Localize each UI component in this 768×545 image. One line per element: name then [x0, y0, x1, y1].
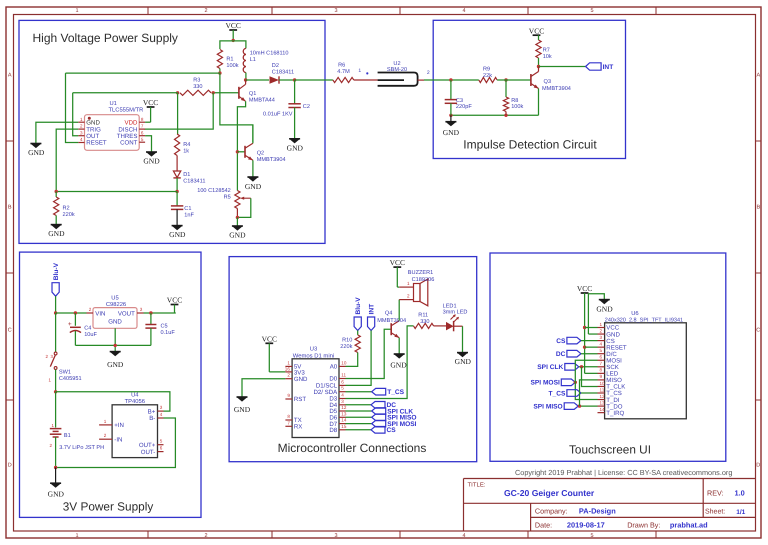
svg-text:100k: 100k	[511, 103, 523, 110]
wire R1 bottom lead	[219, 69, 221, 74]
svg-text:3: 3	[334, 533, 337, 539]
node C1 rail left	[55, 190, 58, 193]
svg-text:D: D	[756, 463, 760, 469]
resistor R1 body	[217, 50, 222, 69]
U1 pin 1 GND	[78, 121, 84, 123]
svg-text:R3: R3	[193, 77, 200, 83]
svg-text:GND: GND	[48, 229, 65, 238]
svg-text:RST: RST	[294, 396, 306, 403]
svg-text:3: 3	[160, 405, 163, 410]
U3 pin 11 D0	[339, 378, 346, 380]
U3 pin 14 D7	[339, 423, 346, 425]
wire Q1 base from R3	[213, 92, 239, 94]
U6 pin 8 LED	[598, 372, 605, 374]
battery B1 plates	[50, 428, 62, 430]
U1 pin 7 DISCH	[139, 128, 145, 130]
U6 pin 10 T_CLK	[598, 385, 605, 387]
net flag CS (MCU)	[346, 429, 372, 431]
svg-text:B: B	[756, 205, 760, 211]
switch SW1 C405951	[54, 352, 57, 355]
svg-text:TITLE:: TITLE:	[468, 482, 486, 489]
svg-text:B: B	[8, 205, 12, 211]
U6 pin 2 GND	[598, 333, 605, 335]
svg-text:R7: R7	[543, 47, 550, 53]
svg-text:GND: GND	[287, 144, 304, 153]
svg-text:330: 330	[193, 84, 202, 90]
resistor R8 body	[503, 97, 508, 112]
svg-text:TP4056: TP4056	[125, 398, 145, 405]
wire VCC to buzzer pin1	[397, 286, 399, 288]
node C3 bottom	[449, 114, 452, 117]
svg-text:6: 6	[341, 379, 344, 384]
wire impulse input rail y80	[451, 79, 479, 81]
wire R6 to tube pin 1	[354, 79, 378, 81]
svg-text:GND: GND	[229, 231, 246, 240]
svg-text:4: 4	[80, 137, 83, 142]
IC U6 ILI9341 TFT body	[605, 323, 687, 419]
svg-text:Q4: Q4	[385, 311, 392, 317]
svg-text:R1: R1	[226, 57, 233, 63]
wire R4 to D1	[176, 156, 178, 171]
U3 pin 3 D4	[339, 404, 346, 406]
svg-text:1: 1	[75, 533, 78, 539]
svg-text:D8: D8	[329, 427, 337, 434]
svg-text:Copyright 2019 Prabhat | Lic: Copyright 2019 Prabhat | License: CC BY-…	[515, 468, 732, 477]
node VCC at pin4	[583, 345, 586, 348]
svg-text:C5: C5	[161, 324, 168, 330]
tube polarity mark	[366, 72, 368, 74]
svg-text:5: 5	[141, 137, 144, 142]
svg-text:GND: GND	[48, 490, 65, 499]
wire R8 top lead	[505, 80, 507, 97]
wire to INT flag	[539, 66, 586, 68]
node R1 bottom	[218, 71, 221, 74]
svg-text:U5: U5	[111, 296, 118, 302]
capacitor C1 body	[171, 205, 183, 207]
svg-text:4: 4	[341, 393, 344, 398]
svg-text:12: 12	[341, 405, 347, 410]
wire SW1 to battery rail	[55, 369, 57, 391]
svg-text:5: 5	[341, 386, 344, 391]
svg-text:A: A	[8, 73, 12, 79]
node C4 top	[74, 311, 77, 314]
ground at U3	[237, 397, 248, 402]
ground under C1	[172, 226, 183, 231]
wire R11 to LED	[434, 325, 446, 327]
U4 pin B-	[158, 417, 164, 419]
svg-text:SBM-20: SBM-20	[387, 67, 407, 73]
node battery rail left	[54, 311, 57, 314]
section box: Impulse Detection Circuit	[433, 20, 625, 158]
svg-text:16: 16	[285, 367, 291, 372]
wire gnd to pin2	[588, 333, 597, 335]
U6 pin 7 SCK	[598, 366, 605, 368]
svg-text:Touchscreen UI: Touchscreen UI	[569, 443, 651, 457]
svg-text:11: 11	[341, 373, 346, 378]
svg-text:GND: GND	[596, 305, 613, 314]
svg-text:1k: 1k	[183, 148, 189, 155]
ground under C2	[289, 139, 300, 144]
wire VCC split to R1 and L1 tops	[220, 41, 246, 49]
U4 pin OUT+	[158, 444, 164, 446]
svg-text:Q1: Q1	[249, 91, 256, 97]
wire battery rail to ground	[55, 468, 57, 484]
svg-text:1: 1	[75, 8, 78, 14]
net flag INT	[586, 63, 602, 70]
wire C3 bottom lead	[450, 103, 452, 115]
svg-text:4.7M: 4.7M	[337, 69, 350, 75]
svg-text:GND: GND	[107, 360, 124, 369]
U3 pin 1 5V	[285, 365, 292, 367]
svg-text:R8: R8	[511, 98, 518, 104]
capacitor C4 polarized	[74, 313, 76, 326]
svg-text:GND: GND	[234, 405, 251, 414]
svg-text:GND: GND	[169, 230, 186, 239]
svg-text:Microcontroller Connections: Microcontroller Connections	[278, 441, 427, 455]
diode D2 C183411	[246, 79, 269, 81]
wire Q4 emitter to ground	[398, 338, 400, 354]
svg-text:2: 2	[287, 373, 290, 378]
frame row ticks and letters	[6, 73, 761, 469]
resistor R3 body	[180, 90, 211, 95]
wire R5 bottom lead	[236, 209, 238, 218]
svg-text:Wemos D1 mini: Wemos D1 mini	[293, 352, 334, 359]
wire C1 top lead	[176, 192, 178, 206]
wire impulse bottom rail	[451, 114, 539, 116]
node MISO junction	[578, 404, 581, 407]
section box: Microcontroller Connections	[229, 257, 477, 462]
wire buzzer pin2 to Q4 collector	[398, 299, 400, 301]
wire OUT riser	[73, 93, 79, 136]
ground at THRES	[146, 152, 157, 157]
node C3 top	[449, 78, 452, 81]
svg-text:T_CS: T_CS	[549, 390, 566, 397]
wire C2 top lead	[294, 80, 296, 104]
svg-text:-IN: -IN	[114, 436, 122, 443]
svg-text:C2: C2	[303, 104, 310, 110]
svg-text:MMBT3904: MMBT3904	[257, 157, 286, 163]
svg-text:6: 6	[160, 446, 163, 451]
wire INT to D1/SCL	[346, 331, 372, 386]
wire B- to battery bottom rail	[56, 418, 176, 468]
wire L1 bottom lead to HV rail	[245, 73, 247, 80]
svg-text:100k: 100k	[226, 62, 238, 69]
transistor Q3 MMBT3904	[530, 74, 532, 86]
svg-text:1: 1	[80, 117, 83, 122]
svg-text:8: 8	[287, 414, 290, 419]
U3 pin 5 D2/SDA	[339, 391, 346, 393]
buzzer BUZZER1 C189206 body	[414, 284, 421, 302]
svg-text:prabhat.ad: prabhat.ad	[670, 521, 708, 530]
resistor R4 body	[175, 134, 180, 156]
U3 pin 7 RX	[285, 425, 292, 427]
IC U5 C98226 body	[93, 308, 137, 329]
svg-text:C4: C4	[84, 326, 91, 332]
svg-text:C405951: C405951	[59, 376, 82, 382]
net flag SPI MISO (MCU)	[346, 416, 372, 418]
svg-text:GND: GND	[455, 357, 472, 366]
wire to pin4	[585, 346, 598, 348]
wire battery top lead	[55, 392, 57, 428]
capacitor C2 body	[288, 103, 300, 105]
svg-text:VCC: VCC	[143, 98, 158, 107]
U1 pin 8 VDD	[139, 121, 145, 123]
U6 pin 9 MISO	[598, 379, 605, 381]
wire VDD to VCC	[145, 121, 151, 123]
svg-text:3: 3	[334, 8, 337, 14]
svg-text:D2: D2	[272, 63, 279, 69]
svg-text:2: 2	[204, 8, 207, 14]
svg-text:14: 14	[600, 407, 606, 412]
buzzer pin 2	[399, 299, 413, 301]
wire RESET riser	[66, 73, 79, 142]
svg-text:R10: R10	[342, 338, 352, 344]
diode D1 C183411	[173, 171, 180, 178]
svg-text:Company:: Company:	[535, 507, 568, 516]
wire SCK to T_CLK	[582, 367, 598, 387]
ground at U1 GND pin	[30, 144, 41, 149]
svg-text:Blu-V: Blu-V	[355, 297, 362, 315]
U3 pin 12 D5	[339, 410, 346, 412]
wire MOSI net	[575, 360, 597, 399]
U6 pin 11 T_CS	[598, 392, 605, 394]
net flag DC (MCU)	[346, 404, 372, 406]
svg-text:T_IRQ: T_IRQ	[606, 410, 624, 417]
resistor R11 body	[414, 323, 434, 328]
svg-text:6: 6	[141, 130, 144, 135]
ground under R2	[51, 225, 62, 230]
frame column ticks and numbers	[75, 7, 656, 539]
net flag SPI MOSI (MCU)	[346, 423, 372, 425]
net flag SPI MOSI (touchscreen)	[561, 379, 575, 386]
node ground rail crossing	[114, 344, 117, 347]
capacitor C5	[150, 313, 152, 325]
net flag SPI CLK (MCU)	[346, 410, 372, 412]
svg-text:14: 14	[341, 418, 347, 423]
ground under Q2	[247, 177, 258, 182]
U3 pin 10 A0	[339, 365, 346, 367]
wire DISCH riser x213.2	[145, 93, 214, 129]
svg-text:SPI MOSI: SPI MOSI	[530, 380, 559, 387]
wire R5 wiper to bottom	[237, 198, 250, 217]
svg-text:2: 2	[600, 328, 603, 333]
wire to pin8	[585, 372, 598, 374]
U6 pin 1 VCC	[598, 327, 605, 329]
wire R8 bottom lead	[505, 112, 507, 116]
svg-text:REV:: REV:	[707, 489, 724, 498]
svg-text:2: 2	[80, 124, 83, 129]
svg-text:5: 5	[590, 8, 593, 14]
svg-text:0.01uF 1KV: 0.01uF 1KV	[263, 111, 293, 117]
ground under Q4	[394, 354, 405, 359]
net flag Blu-V (battery)	[52, 283, 59, 297]
svg-text:U4: U4	[131, 393, 139, 399]
svg-text:9: 9	[287, 393, 290, 398]
wire battery bottom lead	[55, 437, 57, 468]
svg-text:1: 1	[600, 322, 603, 327]
svg-text:2: 2	[204, 533, 207, 539]
svg-text:220pF: 220pF	[456, 104, 472, 110]
svg-text:INT: INT	[369, 304, 376, 315]
svg-text:7: 7	[600, 361, 603, 366]
svg-text:10: 10	[600, 381, 606, 386]
section box: 3V Power Supply	[20, 252, 202, 517]
node at VCC split	[232, 39, 235, 42]
wire Q3 emitter down	[538, 89, 540, 116]
svg-text:5: 5	[600, 348, 603, 353]
svg-text:B1: B1	[64, 433, 71, 439]
svg-text:1.0: 1.0	[735, 489, 745, 498]
U1 pin 6 THRES	[139, 135, 145, 137]
svg-text:CS: CS	[387, 427, 397, 434]
node HV output at C2	[293, 78, 296, 81]
wire R4 top lead from OUT rail	[177, 93, 179, 134]
section box: Touchscreen UI	[490, 253, 726, 461]
wire THRES to ground	[145, 136, 151, 152]
wire Q2 collector up	[252, 125, 254, 143]
resistor R9 body	[479, 77, 497, 82]
U3 pin 16 3V3	[285, 371, 292, 373]
svg-text:Sheet:: Sheet:	[705, 508, 725, 516]
U4 pin +IN	[99, 424, 112, 426]
svg-text:8: 8	[141, 117, 144, 122]
transistor Q1 MMBTA44	[238, 87, 240, 99]
wire to ground under C3	[450, 115, 452, 121]
svg-text:C189206: C189206	[412, 277, 435, 283]
wire Blu-V to rail	[55, 296, 57, 313]
node R3 right	[212, 91, 215, 94]
wire R10 to A0	[346, 353, 358, 367]
svg-text:GND: GND	[390, 360, 407, 369]
svg-text:3: 3	[140, 307, 143, 312]
svg-text:C: C	[8, 328, 12, 334]
wire Q2 base	[237, 151, 245, 153]
svg-text:D1: D1	[183, 172, 190, 178]
node R8 top	[504, 78, 507, 81]
svg-text:A0: A0	[330, 364, 338, 371]
svg-text:R11: R11	[418, 312, 428, 318]
svg-text:4: 4	[160, 412, 163, 417]
svg-text:T_CS: T_CS	[387, 389, 404, 396]
svg-text:3mm LED: 3mm LED	[443, 310, 468, 316]
trimmer R5 wiper arrow	[243, 197, 251, 199]
U5 pin VOUT	[137, 312, 144, 314]
wire U3 GND pin to ground	[242, 379, 285, 397]
svg-text:U2: U2	[393, 61, 400, 67]
wire C3 top lead	[450, 80, 452, 100]
svg-text:VOUT: VOUT	[118, 310, 135, 317]
svg-text:4: 4	[462, 533, 465, 539]
resistor R6 body	[295, 79, 333, 81]
net flag CS (touchscreen)	[567, 337, 581, 344]
ground under R5	[232, 226, 243, 231]
U6 pin 3 CS	[598, 340, 605, 342]
wire MISO to pin9	[580, 380, 598, 406]
svg-text:3: 3	[600, 335, 603, 340]
svg-text:240x320_2.8_SPI_TFT_ILI9341: 240x320_2.8_SPI_TFT_ILI9341	[605, 317, 683, 323]
resistor R7 body	[536, 40, 541, 58]
wire D3 to R11	[346, 326, 414, 399]
svg-text:RX: RX	[294, 424, 302, 431]
svg-text:6: 6	[600, 355, 603, 360]
svg-text:330: 330	[420, 319, 429, 325]
section box: High Voltage Power Supply	[19, 20, 325, 243]
svg-text:OUT-: OUT-	[141, 449, 156, 456]
wire D1 to C1 rail	[176, 178, 178, 192]
svg-text:220k: 220k	[63, 211, 75, 218]
svg-text:CS: CS	[556, 338, 566, 345]
svg-text:PA-Design: PA-Design	[579, 507, 616, 516]
net flag DC (touchscreen)	[567, 350, 581, 357]
svg-text:2: 2	[427, 70, 430, 76]
svg-text:Impulse Detection Circuit: Impulse Detection Circuit	[463, 138, 597, 152]
svg-text:MMBT3904: MMBT3904	[542, 86, 571, 92]
wire Q2 emitter to ground	[252, 160, 254, 177]
U3 pin 2 GND	[285, 378, 292, 380]
node Q3 collector	[537, 65, 540, 68]
svg-text:10uF: 10uF	[84, 332, 97, 338]
svg-text:1: 1	[407, 281, 410, 286]
wire R9 to Q3 base	[497, 79, 531, 81]
svg-text:TLC555M/TR: TLC555M/TR	[109, 107, 144, 114]
IC U3 Wemos D1 mini body	[292, 359, 339, 438]
svg-text:Drawn By:: Drawn By:	[627, 520, 660, 529]
svg-text:+IN: +IN	[114, 422, 124, 429]
svg-text:U1: U1	[110, 101, 117, 107]
svg-text:GND: GND	[245, 182, 262, 191]
ground battery	[50, 483, 61, 488]
svg-text:3.7V LiPo JST PH: 3.7V LiPo JST PH	[59, 444, 104, 451]
ground impulse	[445, 122, 456, 127]
node C5 top	[149, 311, 152, 314]
U5 pin VIN	[87, 312, 94, 314]
svg-text:4: 4	[600, 341, 603, 346]
wire R2 to ground	[55, 216, 57, 225]
node D1 bottom	[175, 190, 178, 193]
svg-text:VCC: VCC	[390, 258, 405, 267]
svg-text:DC: DC	[556, 351, 566, 358]
svg-text:4: 4	[462, 8, 465, 14]
wire 555 OUT rail y92.8	[73, 92, 178, 94]
svg-text:10k: 10k	[543, 53, 552, 60]
node VCC at pin1	[583, 326, 586, 329]
transistor Q2 MMBT3904	[244, 146, 246, 158]
node R8 bottom	[504, 114, 507, 117]
svg-text:D: D	[8, 463, 12, 469]
svg-text:15: 15	[341, 424, 347, 429]
svg-text:220k: 220k	[340, 343, 352, 350]
svg-text:22k: 22k	[483, 72, 492, 79]
svg-text:VCC: VCC	[577, 284, 592, 293]
ground symbol (touchscreen)	[588, 294, 604, 334]
wire C1 to ground	[176, 209, 178, 225]
svg-text:MMBTA44: MMBTA44	[249, 97, 275, 103]
U3 pin 13 D6	[339, 416, 346, 418]
U6 pin 13 T_DO	[598, 405, 605, 407]
svg-text:R5: R5	[224, 194, 231, 200]
U6 pin 12 T_DI	[598, 399, 605, 401]
U3 pin 15 D8	[339, 429, 346, 431]
svg-text:3: 3	[341, 399, 344, 404]
U3 pin 8 TX	[285, 419, 292, 421]
wire VIN rail	[56, 312, 87, 314]
svg-text:2019-08-17: 2019-08-17	[567, 521, 605, 530]
U1 pin 2 TRIG	[78, 128, 84, 130]
buzzer pin 1	[399, 286, 413, 288]
wire VCC rail down pins 1/4/8	[584, 293, 586, 373]
svg-text:5: 5	[590, 533, 593, 539]
U6 pin 14 T_IRQ	[598, 412, 605, 414]
